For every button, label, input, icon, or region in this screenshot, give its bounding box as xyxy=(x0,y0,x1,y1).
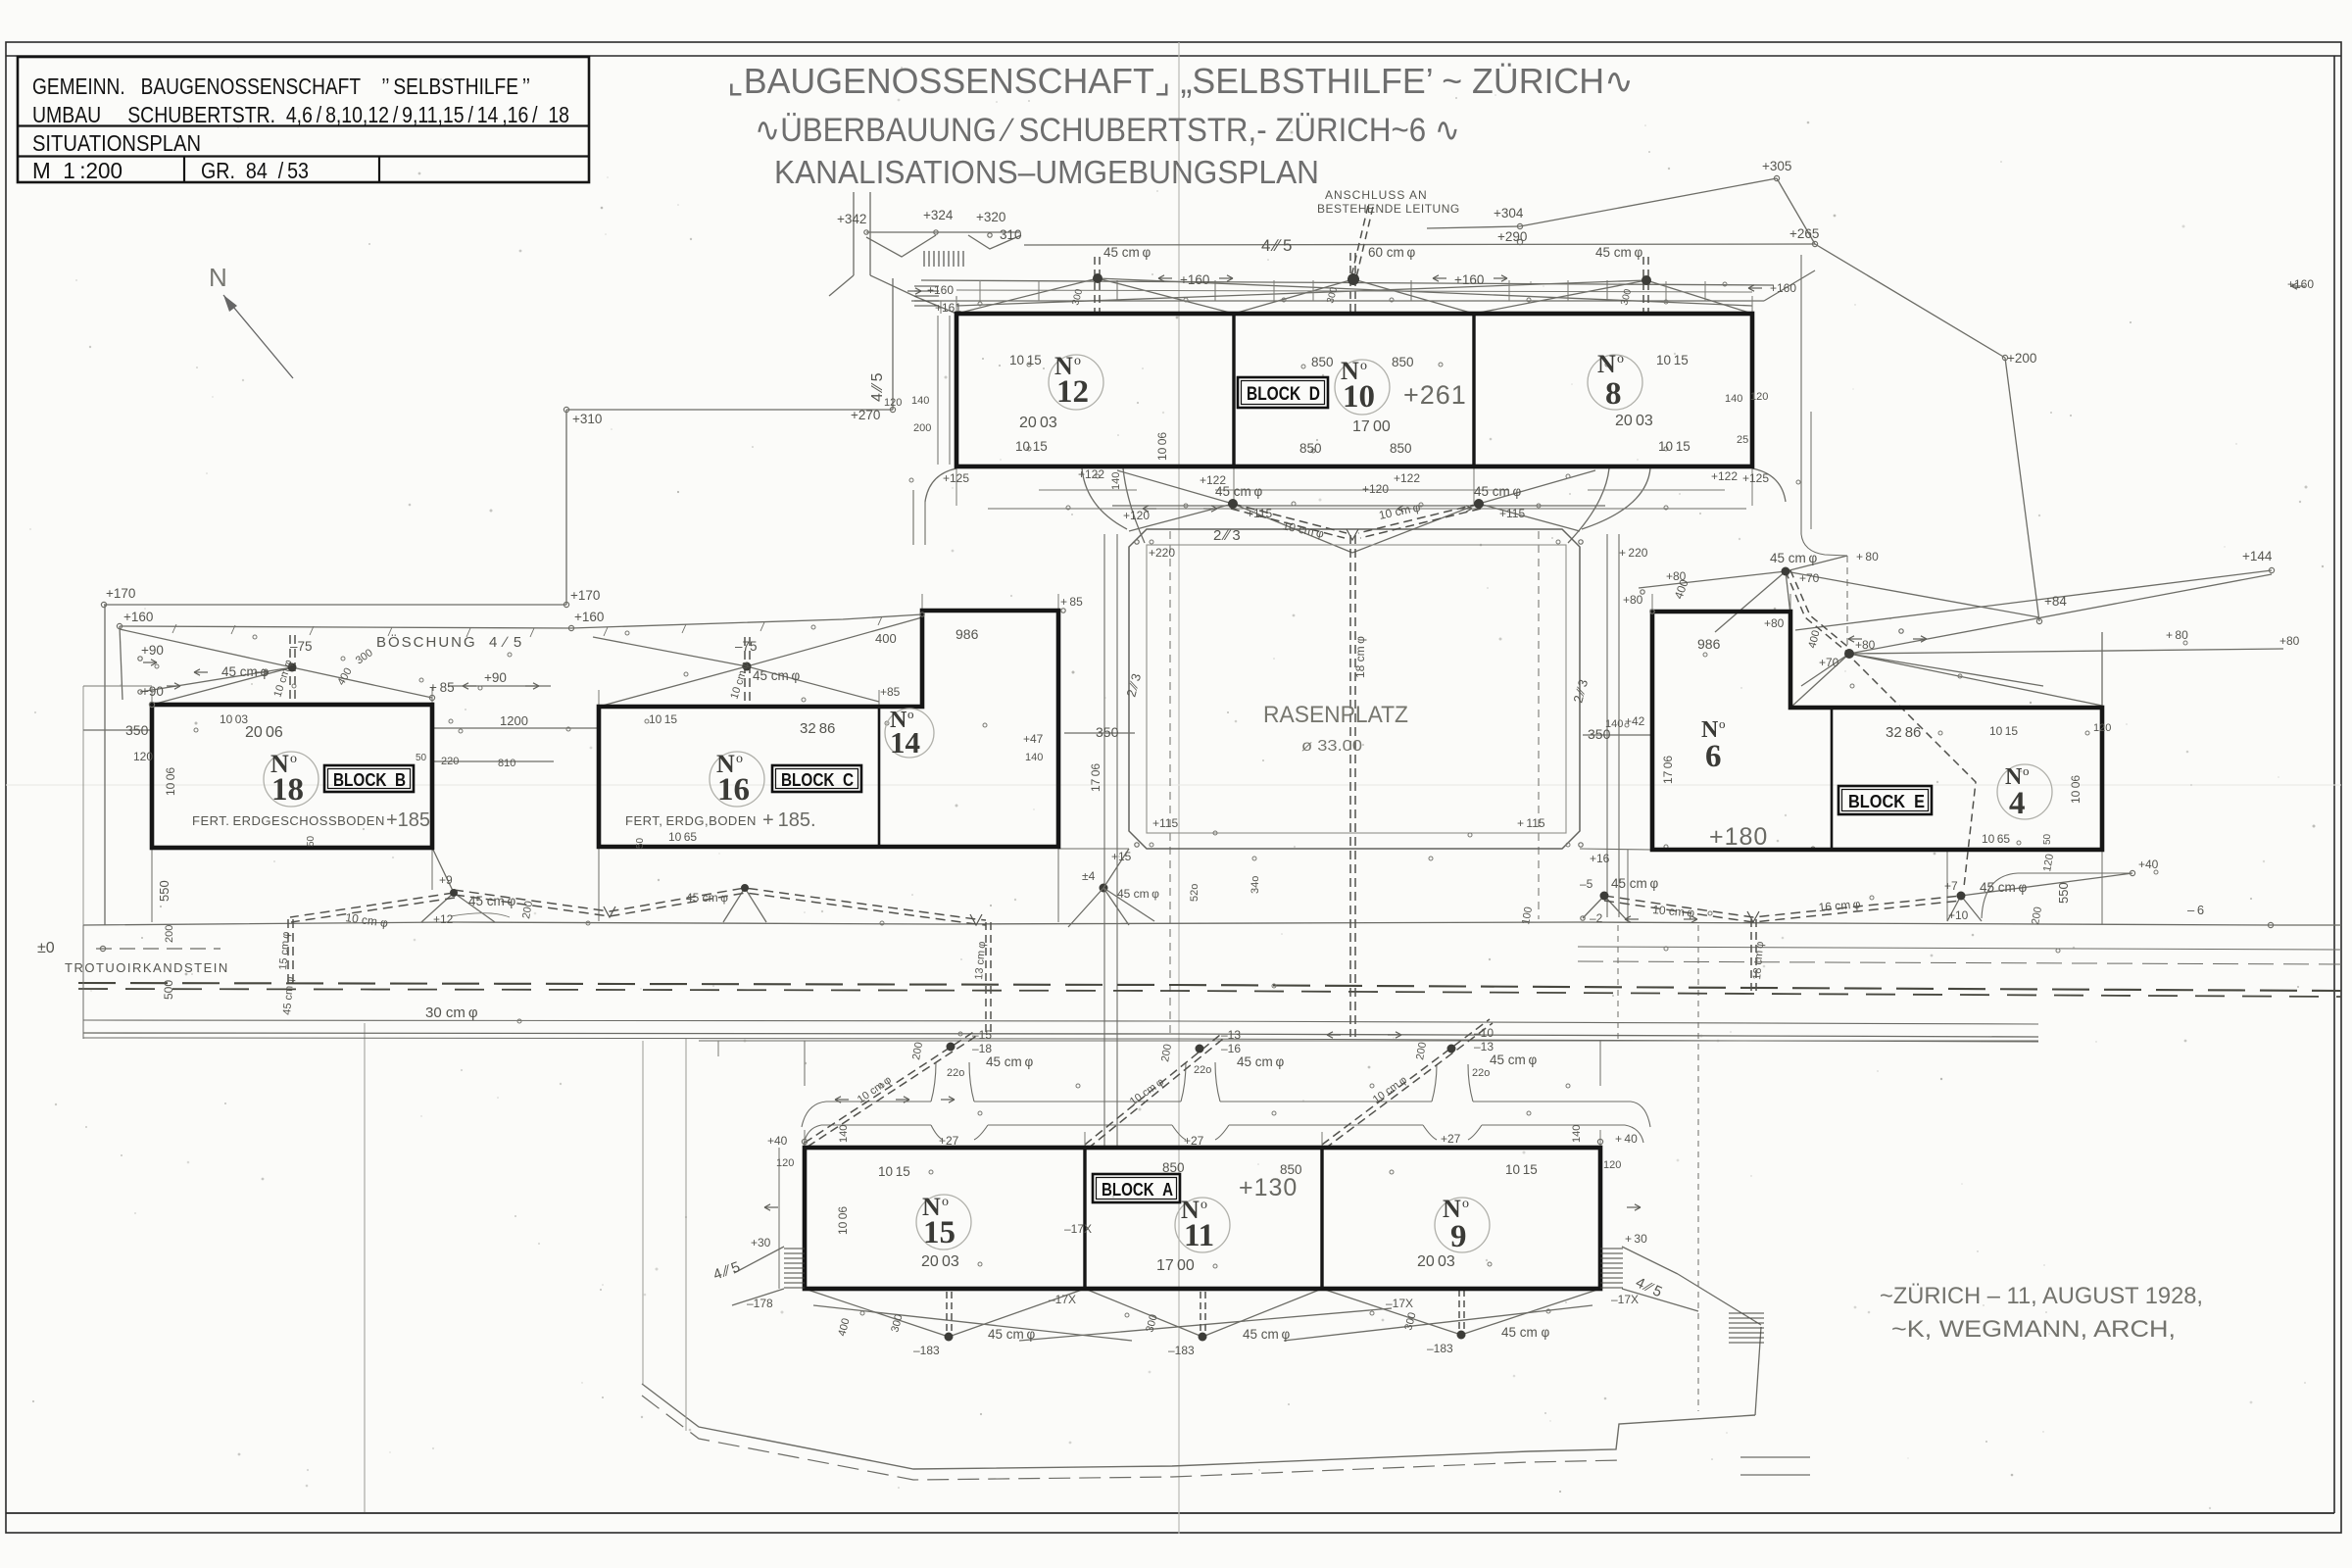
svg-text:ANSCHLUSS AN: ANSCHLUSS AN xyxy=(1325,188,1428,202)
svg-text:20 03: 20 03 xyxy=(1417,1253,1455,1270)
svg-text:–16: –16 xyxy=(1221,1042,1241,1055)
street right thin 1 xyxy=(1578,947,2341,950)
wire courtyard path W pair 1 xyxy=(1103,534,1105,1148)
svg-text:200: 200 xyxy=(1159,1043,1174,1062)
wire truss base above block D xyxy=(911,300,1764,302)
svg-text:850: 850 xyxy=(1299,441,1322,456)
label circle No14 xyxy=(885,709,934,758)
svg-text:BÖSCHUNG 4 ∕ 5: BÖSCHUNG 4 ∕ 5 xyxy=(376,633,523,651)
svg-text:+265: +265 xyxy=(1789,226,1819,241)
LAYER: labels xyxy=(209,263,2203,1343)
label circle No9 xyxy=(1435,1198,1490,1252)
svg-text:–178: –178 xyxy=(747,1297,773,1310)
manhole E lower xyxy=(1844,649,1854,659)
pipe E drop to street xyxy=(1854,661,1976,887)
label circle No11 xyxy=(1175,1198,1230,1252)
svg-text:–5: –5 xyxy=(1580,877,1593,891)
svg-text:+161: +161 xyxy=(935,301,961,315)
label No16 xyxy=(716,750,750,808)
svg-text:300: 300 xyxy=(354,647,375,666)
svg-text:850: 850 xyxy=(1162,1160,1185,1175)
wire truss vertical t1 xyxy=(1116,280,1118,301)
wire sidewalk bottom lower edge xyxy=(642,1396,1623,1480)
svg-text:9: 9 xyxy=(1450,1219,1467,1254)
wire boeschung line xyxy=(120,614,922,628)
manhole boeschung B xyxy=(288,663,297,672)
svg-text:+ 40: + 40 xyxy=(1615,1132,1638,1146)
svg-text:UMBAU SCHUBERTSTR. 4,6 /: UMBAU SCHUBERTSTR. 4,6 / 8,10,12 / 9,11,… xyxy=(32,102,569,127)
wire courtyard path E pair 2 xyxy=(1618,534,1620,917)
svg-text:+160: +160 xyxy=(927,283,954,297)
svg-text:45 cm φ: 45 cm φ xyxy=(1117,887,1159,901)
svg-text:+85: +85 xyxy=(880,685,901,699)
pipe stubs below A xyxy=(947,1290,1464,1335)
wire survey C fan 1 xyxy=(599,666,747,707)
street centerline dashed xyxy=(78,983,2341,991)
svg-text:120: 120 xyxy=(884,397,902,409)
svg-text:BLOCK B: BLOCK B xyxy=(333,770,406,790)
wire courtyard path D-right pair xyxy=(1801,255,1847,556)
building Block D outline xyxy=(956,314,1752,466)
wire truss upper chord xyxy=(921,280,1774,285)
wire dim 350 left xyxy=(83,729,152,731)
wire courtyard path D-left pair xyxy=(912,490,914,545)
wire long line to +290 xyxy=(1024,244,1815,245)
steps north access b xyxy=(914,286,939,306)
svg-text:+ 80: + 80 xyxy=(2166,628,2188,642)
wire diagonal +305 to +265 xyxy=(1777,178,1815,244)
svg-text:FERT, ERDG,BODEN: FERT, ERDG,BODEN xyxy=(625,813,757,828)
svg-text:+120: +120 xyxy=(1362,482,1389,496)
svg-text:+80: +80 xyxy=(1855,638,1876,652)
svg-text:o: o xyxy=(1360,359,1367,373)
wire truss diagonal 5 xyxy=(1474,280,1646,314)
svg-text:500: 500 xyxy=(162,980,175,1000)
label No15 xyxy=(922,1193,955,1250)
svg-text:45 cm φ: 45 cm φ xyxy=(686,891,728,905)
manhole street right 1 xyxy=(1600,892,1609,901)
wire line to +304 xyxy=(1427,226,1520,228)
svg-text:+ 85: + 85 xyxy=(429,680,455,695)
LAYER: streets xyxy=(78,922,2341,1042)
svg-text:–17X: –17X xyxy=(1611,1293,1639,1306)
svg-text:20 06: 20 06 xyxy=(245,724,283,741)
street lower curb pair a xyxy=(83,1033,2038,1037)
label block C box xyxy=(772,765,861,792)
svg-text:o: o xyxy=(1074,354,1081,368)
manhole street right 2 xyxy=(1957,892,1966,901)
wire survey B fan 3 xyxy=(292,667,432,698)
svg-text:52o: 52o xyxy=(1189,884,1200,902)
svg-text:ø 33.00: ø 33.00 xyxy=(1301,738,1362,755)
svg-text:+ 185.: + 185. xyxy=(762,809,816,831)
svg-text:KANALISATIONS–UMGEBUNGSPLAN: KANALISATIONS–UMGEBUNGSPLAN xyxy=(774,154,1319,190)
manhole rasenplatz SW xyxy=(1068,849,1154,927)
street lower line 1 xyxy=(83,1020,2038,1024)
svg-text:10 15: 10 15 xyxy=(878,1164,910,1179)
LAYER: hatches xyxy=(784,251,1764,1343)
svg-text:50: 50 xyxy=(306,835,317,847)
steps north access a xyxy=(924,251,963,267)
street zero datum dash xyxy=(96,948,220,950)
svg-text:o: o xyxy=(1200,1198,1207,1212)
wire E survey big fan xyxy=(1790,556,2283,708)
svg-text:850: 850 xyxy=(1392,355,1414,369)
wire survey C fan 3 xyxy=(747,666,879,702)
svg-text:45 cm φ: 45 cm φ xyxy=(1103,245,1151,260)
wire dim line +342/+324 xyxy=(866,231,1019,233)
pipe right 18cm drop xyxy=(1751,919,1756,992)
svg-text:850: 850 xyxy=(1311,355,1334,369)
svg-text:+115: +115 xyxy=(1499,507,1525,520)
svg-text:+130: +130 xyxy=(1239,1174,1298,1201)
wire E right edge extension xyxy=(2101,632,2103,708)
svg-text:FERT. ERDGESCHOSSBODEN: FERT. ERDGESCHOSSBODEN xyxy=(192,813,385,828)
svg-text:310: 310 xyxy=(1000,227,1022,242)
svg-text:220: 220 xyxy=(441,756,459,767)
svg-text:50: 50 xyxy=(2042,833,2053,845)
svg-text:o: o xyxy=(942,1195,949,1209)
svg-text:45 cm φ: 45 cm φ xyxy=(1980,880,2027,895)
svg-text:45 cm φ: 45 cm φ xyxy=(1215,484,1262,499)
LAYER: survey-network xyxy=(83,178,2283,1512)
wire sidewalk left vertical xyxy=(642,1041,644,1384)
label No9 xyxy=(1443,1195,1469,1254)
svg-text:10 15: 10 15 xyxy=(649,712,677,726)
svg-text:20 03: 20 03 xyxy=(1615,413,1653,429)
manhole above D 1 xyxy=(1093,273,1102,283)
svg-text:+200: +200 xyxy=(2007,351,2036,366)
svg-text:10 15: 10 15 xyxy=(1505,1162,1538,1177)
svg-text:–13: –13 xyxy=(1474,1040,1494,1053)
wire road flare left xyxy=(829,275,854,296)
svg-text:+9: +9 xyxy=(439,873,453,887)
pipe funnel left to center xyxy=(1231,504,1347,538)
wire dim verticals inside rasenplatz xyxy=(1169,531,1171,1033)
svg-text:45 cm φ: 45 cm φ xyxy=(1474,484,1521,499)
svg-text:+80: +80 xyxy=(1666,569,1687,583)
svg-text:200: 200 xyxy=(2030,906,2044,925)
label No4 xyxy=(2005,763,2030,821)
wire funnel curve L2 xyxy=(1123,468,1145,543)
svg-text:120: 120 xyxy=(2093,722,2111,734)
LAYER: buildings xyxy=(152,314,2102,1289)
label block E box xyxy=(1838,786,1932,814)
svg-text:10 03: 10 03 xyxy=(220,712,248,726)
title block vertical divider b xyxy=(378,157,380,183)
svg-text:+160: +160 xyxy=(1180,272,1209,287)
manhole street B xyxy=(450,889,458,897)
svg-text:10 cm φ: 10 cm φ xyxy=(1652,903,1695,920)
svg-text:550: 550 xyxy=(2056,882,2071,904)
label circle No15 xyxy=(916,1195,971,1249)
label No8 xyxy=(1597,350,1624,412)
wire survey C fan 2 xyxy=(593,637,747,666)
building Block A divider no15/no11 xyxy=(1083,1148,1086,1289)
svg-text:10 15: 10 15 xyxy=(1989,724,2018,738)
wire +310 horizontal xyxy=(566,409,893,411)
LAYER: pipes xyxy=(288,206,1976,1335)
wire vertical lot x700 xyxy=(685,1039,687,1431)
manhole street mid xyxy=(741,884,749,892)
svg-text:+7: +7 xyxy=(1944,879,1958,893)
label circle No12 xyxy=(1049,355,1103,410)
svg-text:+160: +160 xyxy=(2287,277,2314,291)
svg-text:850: 850 xyxy=(1390,441,1412,456)
svg-text:+180: +180 xyxy=(1709,823,1768,851)
svg-text:4 ∕∕ 5: 4 ∕∕ 5 xyxy=(711,1258,743,1283)
svg-text:45 cm φ: 45 cm φ xyxy=(281,976,296,1015)
svg-text:+10: +10 xyxy=(1948,908,1969,922)
street right thin 2 xyxy=(1578,961,2341,964)
street lower curb pair b xyxy=(83,1038,2038,1042)
wire top-left access road edge 2 xyxy=(869,192,871,275)
svg-text:BLOCK E: BLOCK E xyxy=(1848,792,1925,811)
svg-text:550: 550 xyxy=(157,880,171,902)
svg-text:15 cm φ: 15 cm φ xyxy=(277,931,292,970)
svg-text:2 ∕∕ 3: 2 ∕∕ 3 xyxy=(1123,672,1144,699)
svg-text:120: 120 xyxy=(776,1157,794,1169)
svg-text:22o: 22o xyxy=(947,1067,964,1079)
wire survey B fan 4 xyxy=(140,667,292,692)
border inner right xyxy=(2333,56,2335,1513)
svg-text:+220: +220 xyxy=(1149,546,1175,560)
wire truss diagonal 6 xyxy=(1646,280,1752,314)
building Block E divider no6/no4 xyxy=(1831,708,1834,850)
wire funnel curve R1 xyxy=(1582,468,1650,529)
building Block C divider no16/no14 xyxy=(878,707,881,847)
svg-text:12: 12 xyxy=(1056,374,1089,410)
LAYER: annotations xyxy=(37,159,2314,1357)
wire survey B fan 2 xyxy=(152,667,292,705)
svg-text:o: o xyxy=(1719,716,1726,731)
wire left lot line 2 xyxy=(120,626,122,700)
svg-text:+90: +90 xyxy=(141,684,164,699)
svg-text:±0: ±0 xyxy=(37,940,55,956)
svg-text:+160: +160 xyxy=(1770,281,1796,295)
svg-text:20 03: 20 03 xyxy=(1019,415,1057,431)
svg-text:SITUATIONSPLAN: SITUATIONSPLAN xyxy=(32,130,201,156)
svg-text:–183: –183 xyxy=(1427,1342,1453,1355)
svg-text:60 cm φ: 60 cm φ xyxy=(1368,245,1415,260)
wire diagonal +304 to +305 xyxy=(1520,178,1777,226)
svg-text:200: 200 xyxy=(910,1041,925,1060)
svg-text:10 15: 10 15 xyxy=(1015,439,1048,454)
svg-text:+16: +16 xyxy=(1590,852,1610,865)
svg-text:BLOCK D: BLOCK D xyxy=(1247,384,1320,405)
building Block D divider no10/no8 xyxy=(1472,314,1475,466)
manhole boeschung C xyxy=(743,662,752,671)
svg-text:∿ÜBERBAUUNG ∕ SCHUBERTSTR,‐ ZÜ: ∿ÜBERBAUUNG ∕ SCHUBERTSTR,‐ ZÜRICH~6 ∿ xyxy=(755,112,1460,149)
svg-text:17 00: 17 00 xyxy=(1352,418,1391,435)
svg-text:+30: +30 xyxy=(751,1236,771,1249)
svg-text:22o: 22o xyxy=(1194,1064,1211,1076)
wire sidewalk stub near date xyxy=(1740,1456,1810,1458)
svg-text:10 cm φ: 10 cm φ xyxy=(345,910,390,930)
svg-text:N: N xyxy=(1597,350,1616,378)
pipe diagonal to A no9 xyxy=(1322,1019,1493,1149)
svg-text:+84: +84 xyxy=(2044,594,2067,609)
svg-text:–75: –75 xyxy=(735,639,758,654)
wire truss vertical t2 xyxy=(1214,280,1216,301)
manhole below D right xyxy=(1474,499,1484,509)
svg-text:10 15: 10 15 xyxy=(1656,353,1689,367)
svg-text:350: 350 xyxy=(1096,724,1119,740)
svg-text:17 06: 17 06 xyxy=(1661,756,1675,784)
steps block A left xyxy=(784,1249,805,1288)
svg-text:200: 200 xyxy=(913,422,931,434)
building Block C with No14 outline xyxy=(599,611,1058,847)
svg-text:34o: 34o xyxy=(1249,876,1261,894)
svg-text:+80: +80 xyxy=(1764,616,1785,630)
pipe into D no8 xyxy=(1643,257,1648,312)
wire v-link a xyxy=(866,235,936,257)
svg-text:810: 810 xyxy=(498,758,515,769)
svg-text:6: 6 xyxy=(1705,739,1722,774)
wire dim verticals right street xyxy=(1618,925,1698,1411)
svg-text:300: 300 xyxy=(889,1313,905,1334)
wire diagonal +200 to +84 xyxy=(2005,358,2039,621)
wire survey around right street manholes xyxy=(1583,873,2132,921)
svg-text:–18: –18 xyxy=(972,1042,992,1055)
svg-text:+120: +120 xyxy=(1123,509,1150,522)
svg-text:10 06: 10 06 xyxy=(836,1206,850,1235)
svg-text:45 cm φ: 45 cm φ xyxy=(1237,1054,1284,1069)
label No11 xyxy=(1181,1196,1214,1253)
label circle No10 xyxy=(1335,360,1390,415)
svg-text:20 03: 20 03 xyxy=(921,1253,959,1270)
svg-text:o: o xyxy=(736,752,743,766)
svg-text:300: 300 xyxy=(1402,1311,1418,1332)
street top curb xyxy=(83,922,2341,925)
border inner bottom xyxy=(6,1512,2334,1514)
wire funnel curve L1 xyxy=(1082,468,1127,529)
svg-text:10 cm φ: 10 cm φ xyxy=(728,661,752,701)
svg-text:+122: +122 xyxy=(1078,467,1104,481)
svg-text:+27: +27 xyxy=(939,1134,959,1148)
svg-text:18: 18 xyxy=(271,772,304,808)
wire gable path west of D xyxy=(937,316,939,465)
svg-text:45 cm φ: 45 cm φ xyxy=(1770,551,1817,565)
svg-text:M 1 :200: M 1 :200 xyxy=(32,158,122,183)
svg-text:+15: +15 xyxy=(1111,850,1132,863)
wire truss vertical t3 xyxy=(1410,280,1412,301)
wire left lot line xyxy=(104,605,106,925)
pipe B -75 drop xyxy=(290,635,295,705)
wire path south of courtyard xyxy=(1058,848,1129,850)
wire E survey small fan xyxy=(1639,556,2039,632)
svg-text:300: 300 xyxy=(1619,287,1634,306)
wire sidewalk bottom upper edge xyxy=(642,1384,1755,1469)
steps sidewalk right xyxy=(1729,1313,1764,1343)
svg-text:22o: 22o xyxy=(1472,1067,1490,1079)
title block vertical divider a xyxy=(183,157,185,183)
svg-text:45 cm φ: 45 cm φ xyxy=(1595,245,1642,260)
wire diagonal +265 to +200 xyxy=(1815,244,2005,358)
svg-text:10 cm φ: 10 cm φ xyxy=(271,659,295,699)
pipe funnel right to center xyxy=(1358,504,1481,538)
svg-text:400: 400 xyxy=(1806,629,1822,650)
svg-text:11: 11 xyxy=(1184,1218,1214,1253)
svg-text:+80: +80 xyxy=(2279,634,2300,648)
svg-text:–17X: –17X xyxy=(1049,1293,1076,1306)
svg-text:50: 50 xyxy=(416,753,427,763)
svg-text:+27: +27 xyxy=(1184,1134,1204,1148)
svg-text:+ 85: + 85 xyxy=(1060,595,1083,609)
rasenplatz outer square xyxy=(1129,529,1580,849)
svg-text:–183: –183 xyxy=(1168,1344,1195,1357)
wire dim 1200 xyxy=(432,727,599,729)
LAYER: header handwriting xyxy=(727,61,1634,190)
svg-text:N: N xyxy=(209,263,227,292)
label circle No8 xyxy=(1588,355,1642,410)
svg-text:400: 400 xyxy=(335,666,355,688)
wire vertical to +310 xyxy=(565,410,567,605)
wire path band above A upper xyxy=(802,1062,1650,1145)
pipe E upper 45cm xyxy=(1786,570,1850,654)
svg-text:18 cm φ: 18 cm φ xyxy=(1353,636,1367,678)
svg-text:45 cm φ: 45 cm φ xyxy=(1501,1325,1550,1340)
building Block B outline xyxy=(152,705,432,848)
wire E bottom path line xyxy=(2018,872,2132,874)
svg-text:10 06: 10 06 xyxy=(1155,432,1169,461)
svg-text:850: 850 xyxy=(1280,1162,1302,1177)
svg-text:10 cm φ: 10 cm φ xyxy=(1281,518,1325,541)
svg-text:~K, WEGMANN, ARCH,: ~K, WEGMANN, ARCH, xyxy=(1891,1316,2176,1343)
svg-text:+342: +342 xyxy=(837,212,866,226)
svg-text:+125: +125 xyxy=(1742,471,1769,485)
svg-text:+90: +90 xyxy=(484,670,507,685)
fold line vertical xyxy=(1178,42,1180,1534)
pipe street B drop xyxy=(288,919,293,984)
fold line horizontal xyxy=(6,784,2341,786)
manhole below A 2 xyxy=(1199,1333,1207,1342)
wire top-left access road edge 1 xyxy=(853,192,855,275)
label No14 xyxy=(890,707,920,759)
svg-text:+270: +270 xyxy=(851,408,880,422)
svg-text:–17X: –17X xyxy=(1064,1222,1092,1236)
svg-text:+144: +144 xyxy=(2242,549,2273,563)
LAYER: title block xyxy=(18,57,589,183)
pipe street right run xyxy=(1604,896,1961,922)
svg-text:+320: +320 xyxy=(976,210,1005,224)
label No10 xyxy=(1341,357,1375,415)
title block divider 2 xyxy=(18,155,589,157)
svg-text:140: 140 xyxy=(1025,752,1043,763)
svg-text:+40: +40 xyxy=(2138,857,2159,871)
pipe rasenplatz center drop xyxy=(1350,535,1355,1037)
building Block D divider no12/no10 xyxy=(1232,314,1235,466)
svg-text:10 15: 10 15 xyxy=(1009,353,1042,367)
svg-text:45 cm φ: 45 cm φ xyxy=(1243,1327,1290,1342)
svg-text:+ 220: + 220 xyxy=(1619,546,1648,560)
svg-text:140: 140 xyxy=(1725,393,1742,405)
title block box xyxy=(18,57,589,182)
building Block E with No6 outline xyxy=(1652,612,2102,850)
wire truss diagonal 2 xyxy=(1098,278,1234,314)
svg-text:45 cm φ: 45 cm φ xyxy=(988,1327,1035,1342)
svg-text:2 ∕∕ 3: 2 ∕∕ 3 xyxy=(1213,527,1241,544)
manhole below A 3 xyxy=(1457,1331,1466,1340)
manhole A access 2 xyxy=(1196,1045,1204,1053)
svg-text:o: o xyxy=(2023,763,2030,778)
svg-text:30 cm φ: 30 cm φ xyxy=(425,1004,478,1021)
wire survey C fan 4 xyxy=(747,617,922,666)
svg-text:+12: +12 xyxy=(433,912,454,926)
svg-text:GEMEINN. BAUGENOSSENSCHAFT: GEMEINN. BAUGENOSSENSCHAFT ’’ SELBSTHILF… xyxy=(32,73,530,99)
wire truss base right kink xyxy=(1764,270,1815,301)
pipe v-dip mark street left xyxy=(970,914,982,925)
